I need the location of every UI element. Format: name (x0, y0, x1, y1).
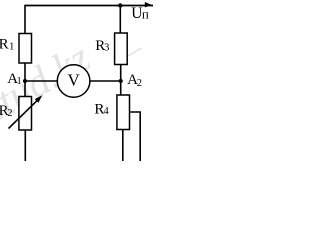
label A2 (127, 72, 142, 89)
svg-text:2: 2 (7, 108, 12, 119)
node A1 (23, 79, 27, 83)
svg-text:3: 3 (104, 43, 109, 54)
voltmeter U1 (57, 65, 90, 98)
label R1 (0, 37, 14, 53)
resistor R2 variable (9, 95, 43, 130)
wire right branch middle (120, 65, 122, 96)
label R4 (94, 101, 109, 117)
svg-text:U: U (131, 5, 142, 22)
svg-text:V: V (67, 71, 80, 90)
resistor R1 (19, 34, 32, 64)
wire top horizontal rail (25, 5, 153, 7)
resistor R4 tapped (117, 95, 130, 130)
svg-text:R: R (0, 37, 9, 53)
svg-text:п: п (142, 6, 149, 21)
label Uп (131, 5, 149, 22)
svg-text:1: 1 (9, 42, 14, 53)
wire left branch upper (24, 5, 26, 34)
wire right branch lower (122, 130, 124, 162)
node junction top right (118, 3, 122, 7)
node A2 (119, 79, 123, 83)
label A1 (7, 71, 21, 87)
wire right branch upper (119, 6, 121, 34)
label R3 (95, 38, 109, 54)
wire tap from R4 (130, 112, 141, 161)
svg-text:1: 1 (17, 76, 22, 87)
arrowhead supply arrow Uп (145, 2, 152, 7)
svg-text:2: 2 (137, 78, 142, 89)
wire voltmeter right lead (90, 80, 121, 82)
wire left branch middle (24, 63, 26, 97)
label R2 (0, 103, 13, 119)
resistor R3 (115, 33, 128, 65)
svg-text:4: 4 (104, 106, 110, 117)
wire left branch lower (24, 130, 26, 161)
wire voltmeter left lead (25, 80, 57, 82)
